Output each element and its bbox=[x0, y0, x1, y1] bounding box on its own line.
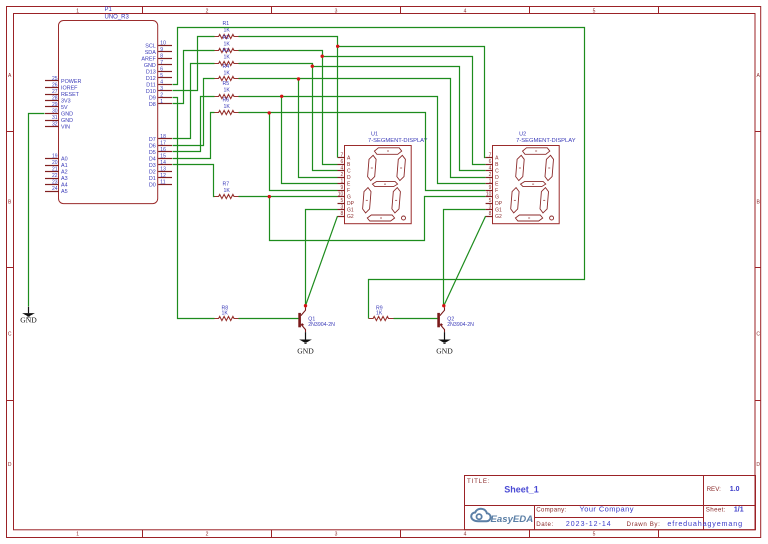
svg-text:4: 4 bbox=[341, 166, 344, 172]
svg-text:VIN: VIN bbox=[61, 125, 70, 131]
wire net SEG-A: R1 to U1.A and U2.A bbox=[239, 37, 486, 158]
svg-text:30: 30 bbox=[52, 109, 58, 115]
svg-text:2: 2 bbox=[160, 92, 163, 98]
svg-text:8: 8 bbox=[160, 53, 163, 59]
junction net SEG-G bbox=[268, 195, 271, 198]
svg-text:4: 4 bbox=[489, 166, 492, 172]
U2 digit segments bbox=[511, 148, 554, 221]
resistor R8 bbox=[214, 316, 239, 320]
svg-text:C: C bbox=[756, 332, 760, 338]
svg-text:GND: GND bbox=[61, 112, 73, 118]
svg-text:9: 9 bbox=[489, 185, 492, 191]
junction net CATH2 at Q2 collector bbox=[442, 304, 445, 307]
svg-text:D3: D3 bbox=[149, 163, 156, 169]
svg-text:31: 31 bbox=[52, 115, 58, 121]
svg-text:D: D bbox=[347, 175, 351, 181]
svg-text:1: 1 bbox=[489, 179, 492, 185]
resistor R2 bbox=[214, 48, 239, 52]
wire net SEG-B: R2 to U1.B and U2.B bbox=[239, 51, 486, 165]
svg-text:D7: D7 bbox=[149, 137, 156, 143]
svg-text:G: G bbox=[347, 195, 351, 201]
junction net SEG-D bbox=[297, 77, 300, 80]
svg-text:2: 2 bbox=[489, 172, 492, 178]
svg-text:27: 27 bbox=[52, 89, 58, 95]
svg-text:R7: R7 bbox=[223, 181, 230, 187]
svg-text:6: 6 bbox=[341, 159, 344, 165]
svg-text:29: 29 bbox=[52, 102, 58, 108]
svg-text:7-SEGMENT-DISPLAY: 7-SEGMENT-DISPLAY bbox=[368, 138, 428, 144]
svg-text:12: 12 bbox=[160, 173, 166, 179]
svg-text:5: 5 bbox=[593, 8, 596, 14]
resistor R9 bbox=[369, 316, 394, 320]
svg-text:6: 6 bbox=[489, 159, 492, 165]
wire P1.GND pin30 to GND1 bbox=[29, 114, 45, 307]
svg-text:1K: 1K bbox=[376, 310, 383, 316]
svg-text:10: 10 bbox=[486, 192, 492, 198]
svg-text:DP: DP bbox=[495, 201, 503, 207]
svg-text:1: 1 bbox=[76, 8, 79, 14]
svg-text:A3: A3 bbox=[61, 176, 68, 182]
svg-text:GND: GND bbox=[144, 63, 156, 69]
title block bbox=[464, 476, 756, 530]
wire net SEG-C: R3 to U1.C and U2.C bbox=[239, 64, 486, 171]
svg-text:14: 14 bbox=[160, 160, 166, 166]
wire net SEG-G: R7 to U1.G and U2.G bbox=[239, 197, 486, 241]
U2 pin names bbox=[495, 156, 503, 221]
svg-text:2023-12-14: 2023-12-14 bbox=[566, 521, 612, 528]
svg-text:D: D bbox=[8, 462, 12, 468]
junction net SEG-F bbox=[268, 111, 271, 114]
svg-text:2: 2 bbox=[341, 172, 344, 178]
7-segment display U2 body bbox=[493, 146, 560, 224]
svg-text:18: 18 bbox=[160, 134, 166, 140]
svg-text:D5: D5 bbox=[149, 150, 156, 156]
svg-text:D9: D9 bbox=[149, 95, 156, 101]
svg-text:21: 21 bbox=[52, 167, 58, 173]
svg-text:7: 7 bbox=[160, 60, 163, 66]
svg-text:POWER: POWER bbox=[61, 79, 81, 85]
U1 pin numbers bbox=[338, 153, 344, 218]
svg-text:16: 16 bbox=[160, 147, 166, 153]
svg-text:F: F bbox=[495, 188, 498, 194]
svg-text:P1: P1 bbox=[105, 7, 113, 13]
wire D6 to R4 bbox=[173, 79, 215, 146]
svg-text:1K: 1K bbox=[224, 70, 231, 76]
svg-text:C: C bbox=[8, 332, 12, 338]
svg-text:2N3904-2N: 2N3904-2N bbox=[308, 322, 335, 328]
svg-text:D13: D13 bbox=[146, 69, 156, 75]
svg-text:D12: D12 bbox=[146, 76, 156, 82]
svg-text:Your Company: Your Company bbox=[580, 505, 634, 514]
svg-text:1K: 1K bbox=[224, 88, 231, 94]
wire D10 to R1 bbox=[173, 37, 215, 91]
wire net DIG1: D9 to R8 to Q1 base bbox=[173, 98, 299, 319]
svg-text:5: 5 bbox=[341, 198, 344, 204]
svg-text:5: 5 bbox=[160, 73, 163, 79]
svg-text:U1: U1 bbox=[371, 131, 378, 137]
svg-text:7: 7 bbox=[489, 153, 492, 159]
svg-text:TITLE:: TITLE: bbox=[467, 478, 490, 485]
svg-text:3: 3 bbox=[335, 8, 338, 14]
resistor R5 bbox=[214, 94, 239, 98]
svg-text:D6: D6 bbox=[149, 143, 156, 149]
svg-text:8: 8 bbox=[489, 211, 492, 217]
svg-text:Company:: Company: bbox=[536, 507, 566, 514]
svg-text:13: 13 bbox=[160, 166, 166, 172]
svg-text:Sheet_1: Sheet_1 bbox=[504, 485, 539, 495]
transistor Q2 2N3904-2N bbox=[437, 307, 444, 332]
svg-text:A2: A2 bbox=[61, 170, 68, 176]
svg-text:11: 11 bbox=[160, 179, 165, 185]
svg-text:Drawn By:: Drawn By: bbox=[627, 521, 661, 528]
svg-text:2N3904-2N: 2N3904-2N bbox=[447, 322, 474, 328]
svg-text:1K: 1K bbox=[224, 188, 231, 194]
svg-text:R2: R2 bbox=[223, 35, 230, 41]
svg-text:1K: 1K bbox=[224, 55, 231, 61]
svg-text:3: 3 bbox=[341, 205, 344, 211]
U2 pin numbers bbox=[486, 153, 492, 218]
svg-text:GND: GND bbox=[297, 346, 314, 355]
svg-text:1K: 1K bbox=[224, 41, 231, 47]
svg-text:REV:: REV: bbox=[707, 486, 721, 493]
P1 right pin names bbox=[141, 43, 156, 188]
svg-text:22: 22 bbox=[52, 173, 58, 179]
svg-text:4: 4 bbox=[160, 79, 163, 85]
transistor Q1 2N3904-2N bbox=[298, 307, 305, 332]
svg-text:G2: G2 bbox=[347, 214, 354, 220]
svg-text:3: 3 bbox=[489, 205, 492, 211]
svg-text:D10: D10 bbox=[146, 89, 156, 95]
resistor R1 bbox=[214, 34, 239, 38]
svg-text:5: 5 bbox=[489, 198, 492, 204]
svg-text:GND: GND bbox=[436, 346, 453, 355]
svg-text:SDA: SDA bbox=[145, 50, 156, 56]
svg-text:GND: GND bbox=[61, 118, 73, 124]
junction net SEG-B bbox=[321, 55, 324, 58]
U1 pin names bbox=[347, 156, 355, 221]
svg-text:A4: A4 bbox=[61, 183, 68, 189]
P1 right pins bbox=[158, 46, 172, 185]
wire net CATH1: U1.G1/G2 to Q1 collector bbox=[306, 210, 338, 306]
svg-text:efreduahagyemang: efreduahagyemang bbox=[667, 519, 743, 528]
svg-text:20: 20 bbox=[52, 160, 58, 166]
wire D3 to R7 bbox=[173, 165, 215, 197]
svg-text:U2: U2 bbox=[519, 131, 526, 137]
P1 left pin numbers bbox=[52, 76, 58, 192]
svg-text:AREF: AREF bbox=[141, 56, 156, 62]
svg-text:Date:: Date: bbox=[536, 521, 554, 528]
svg-text:5V: 5V bbox=[61, 105, 68, 111]
P1 right pin numbers bbox=[160, 40, 166, 185]
svg-text:3: 3 bbox=[335, 532, 338, 538]
svg-text:1: 1 bbox=[341, 179, 344, 185]
svg-text:F: F bbox=[347, 188, 350, 194]
svg-text:17: 17 bbox=[160, 140, 166, 146]
svg-text:28: 28 bbox=[52, 96, 58, 102]
svg-text:7: 7 bbox=[341, 153, 344, 159]
svg-text:G2: G2 bbox=[495, 214, 502, 220]
svg-text:7-SEGMENT-DISPLAY: 7-SEGMENT-DISPLAY bbox=[516, 138, 576, 144]
svg-text:EasyEDA: EasyEDA bbox=[491, 514, 534, 525]
resistor R6 bbox=[214, 110, 239, 114]
7-segment display U1 body bbox=[345, 146, 412, 224]
U1 digit segments bbox=[363, 148, 406, 221]
svg-text:26: 26 bbox=[52, 83, 58, 89]
svg-text:GND: GND bbox=[20, 316, 37, 325]
svg-text:1: 1 bbox=[76, 532, 79, 538]
svg-text:G1: G1 bbox=[347, 208, 354, 214]
svg-text:A1: A1 bbox=[61, 163, 68, 169]
ground symbol GND3 (Q2 emitter) bbox=[436, 332, 453, 355]
wire D4 to R6 bbox=[173, 113, 215, 159]
svg-text:R6: R6 bbox=[223, 98, 230, 104]
svg-text:1: 1 bbox=[160, 99, 163, 105]
svg-text:1K: 1K bbox=[222, 310, 229, 316]
svg-text:24: 24 bbox=[52, 186, 58, 192]
resistor R7 bbox=[214, 194, 239, 198]
svg-text:32: 32 bbox=[52, 122, 58, 128]
svg-text:1K: 1K bbox=[224, 28, 231, 34]
svg-text:A0: A0 bbox=[61, 157, 68, 163]
svg-text:3V3: 3V3 bbox=[61, 99, 71, 105]
svg-text:SCL: SCL bbox=[145, 43, 156, 49]
svg-text:3: 3 bbox=[160, 86, 163, 92]
IC P1 UNO_R3 body bbox=[59, 21, 158, 204]
svg-text:R3: R3 bbox=[223, 48, 230, 54]
svg-text:8: 8 bbox=[341, 211, 344, 217]
wire net DIG2: D11 to R9 to Q2 base bbox=[173, 28, 585, 319]
P1 left pin names bbox=[61, 79, 81, 195]
svg-text:10: 10 bbox=[160, 40, 166, 46]
svg-text:25: 25 bbox=[52, 76, 58, 82]
svg-text:RESET: RESET bbox=[61, 92, 80, 98]
ground symbol GND1 (P1 GND net) bbox=[20, 307, 37, 325]
svg-text:IOREF: IOREF bbox=[61, 86, 78, 92]
wire D7 to R3 bbox=[173, 64, 215, 139]
svg-text:UNO_R3: UNO_R3 bbox=[105, 14, 130, 20]
svg-text:D: D bbox=[495, 175, 499, 181]
junction net SEG-C bbox=[311, 65, 314, 68]
svg-text:4: 4 bbox=[464, 8, 467, 14]
wire D5 to R5 bbox=[173, 97, 215, 152]
resistor R3 bbox=[214, 61, 239, 65]
P1 left pins bbox=[45, 81, 59, 192]
svg-text:D2: D2 bbox=[149, 169, 156, 175]
svg-text:6: 6 bbox=[160, 66, 163, 72]
wire D8 to R2 bbox=[173, 51, 215, 104]
svg-text:19: 19 bbox=[52, 154, 58, 160]
U1 pins bbox=[338, 158, 345, 217]
junction net CATH1 at Q1 collector bbox=[304, 304, 307, 307]
svg-text:DP: DP bbox=[347, 201, 355, 207]
svg-text:D: D bbox=[756, 462, 760, 468]
EasyEDA logo bbox=[471, 509, 533, 525]
svg-text:1K: 1K bbox=[224, 104, 231, 110]
svg-text:4: 4 bbox=[464, 532, 467, 538]
svg-text:Sheet:: Sheet: bbox=[706, 507, 726, 514]
ground symbol GND2 (Q1 emitter) bbox=[297, 332, 314, 355]
svg-text:D1: D1 bbox=[149, 176, 156, 182]
svg-text:9: 9 bbox=[341, 185, 344, 191]
svg-text:C: C bbox=[495, 169, 499, 175]
svg-text:D0: D0 bbox=[149, 182, 156, 188]
svg-text:C: C bbox=[347, 169, 351, 175]
svg-text:G1: G1 bbox=[495, 208, 502, 214]
svg-text:1/1: 1/1 bbox=[734, 507, 744, 514]
U2 pins bbox=[486, 158, 493, 217]
svg-text:D8: D8 bbox=[149, 102, 156, 108]
junction net SEG-A bbox=[336, 45, 339, 48]
svg-text:D4: D4 bbox=[149, 156, 156, 162]
svg-text:9: 9 bbox=[160, 47, 163, 53]
svg-text:10: 10 bbox=[338, 192, 344, 198]
junction net SEG-E bbox=[280, 95, 283, 98]
svg-text:R1: R1 bbox=[223, 21, 230, 27]
wire net SEG-D: R4 to U1.D and U2.D bbox=[239, 79, 486, 178]
wire net SEG-F: R6 to U1.F and U2.F bbox=[239, 113, 486, 191]
svg-text:2: 2 bbox=[206, 8, 209, 14]
resistor R4 bbox=[214, 76, 239, 80]
wire net SEG-E: R5 to U1.E and U2.E bbox=[239, 97, 486, 184]
svg-text:R5: R5 bbox=[223, 81, 230, 87]
svg-text:15: 15 bbox=[160, 153, 166, 159]
svg-text:A5: A5 bbox=[61, 189, 68, 195]
svg-text:R4: R4 bbox=[223, 64, 230, 70]
wire net CATH2: U2.G1/G2 to Q2 collector bbox=[444, 210, 486, 306]
svg-text:23: 23 bbox=[52, 180, 58, 186]
svg-text:1.0: 1.0 bbox=[730, 486, 740, 493]
svg-text:2: 2 bbox=[206, 532, 209, 538]
svg-text:5: 5 bbox=[593, 532, 596, 538]
svg-text:G: G bbox=[495, 195, 499, 201]
svg-text:D11: D11 bbox=[146, 82, 156, 88]
